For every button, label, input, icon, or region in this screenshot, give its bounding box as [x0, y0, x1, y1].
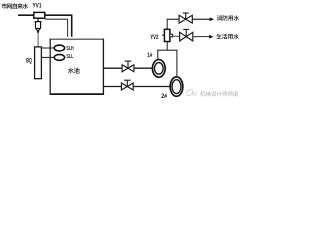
wire: probe drop line: [37, 33, 39, 47]
wire: outlet 1: [103, 67, 122, 69]
svg-text:2#: 2#: [161, 94, 167, 100]
valve on outlet 2: [121, 83, 133, 90]
wire: main supply pipe: [18, 15, 72, 37]
electrode holder BQ: [35, 47, 42, 79]
wire: pump 2 riser: [176, 50, 178, 77]
valve on domestic branch: [180, 32, 193, 41]
wire: outlet 2: [103, 86, 121, 88]
pump 1#: [152, 60, 165, 78]
valve on outlet 1: [122, 65, 134, 72]
wire: manifold: [157, 49, 177, 51]
watermark logo: [187, 90, 193, 96]
svg-text:YV1: YV1: [33, 2, 42, 9]
pump 2#: [170, 77, 183, 96]
wire: domestic branch: [173, 35, 180, 37]
label: city tap water 市网自来水: [1, 3, 6, 9]
water tank 水池: [50, 39, 103, 94]
wire: BQ to SLL: [41, 56, 54, 58]
wire: pump 1 riser: [157, 50, 159, 60]
wire: inner inlet pipe: [45, 19, 67, 37]
svg-text:SLH: SLH: [66, 46, 73, 52]
wire: BQ to SLH: [41, 47, 54, 49]
label 消防用水: [217, 15, 222, 20]
svg-text:SLL: SLL: [66, 54, 73, 60]
label 生活用水: [216, 34, 221, 39]
funnel / level-probe fitting below YV1: [37, 18, 39, 21]
svg-text:BQ: BQ: [26, 58, 32, 65]
label 水池: [68, 68, 74, 74]
solenoid valve YV2: [162, 34, 165, 36]
level sensor SLH: [54, 45, 64, 51]
level sensor SLL: [54, 54, 64, 60]
valve on fire branch: [179, 15, 192, 23]
svg-text:YV2: YV2: [150, 34, 159, 41]
svg-text:1#: 1#: [147, 53, 152, 59]
solenoid valve YV1: [34, 12, 45, 18]
watermark text 机械设计师频道: [200, 91, 205, 96]
wire: riser to YV2: [166, 41, 168, 50]
arrow fire water: [210, 17, 214, 21]
wire: fire branch: [167, 18, 180, 20]
arrow domestic water: [209, 35, 213, 39]
